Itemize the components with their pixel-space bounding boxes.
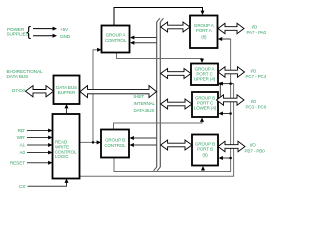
svg-text:+5V: +5V	[60, 27, 69, 32]
svg-text:8-BIT: 8-BIT	[134, 94, 145, 99]
wire bus to port B (hollow arrow)	[161, 140, 192, 150]
group B port C lower U7	[192, 92, 218, 117]
svg-text:RESET: RESET	[10, 161, 25, 166]
svg-text:PC3 - PC0: PC3 - PC0	[246, 104, 267, 109]
wire control logic to data bus buffer	[65, 104, 69, 114]
data bus buffer U1	[54, 76, 80, 105]
arrowhead into port A top	[201, 11, 205, 15]
svg-text:WR': WR'	[17, 135, 26, 140]
wire bus to group B control (lower)	[130, 143, 157, 147]
node A0 input	[19, 150, 25, 155]
junction control branch	[92, 141, 95, 144]
bi-directional data bus label	[7, 69, 44, 79]
svg-text:RD': RD'	[18, 128, 26, 133]
node I/O PA7-PA0	[247, 25, 267, 35]
wire bus to group B control (upper)	[130, 136, 157, 140]
wire control logic bottom rail	[80, 84, 234, 177]
node I/O PC7-PC4	[246, 69, 267, 79]
wire rail arrow into port B bottom	[201, 166, 205, 172]
wire rail arrow into port C upper right	[219, 82, 234, 86]
arrowhead into port C upper top	[200, 59, 204, 63]
arrowhead into group A control left	[97, 48, 101, 52]
wire GND arrow	[33, 34, 57, 38]
node I/O PB7-PB0	[245, 143, 266, 154]
ground GND	[60, 34, 71, 39]
node +5V	[60, 27, 69, 32]
8-bit internal data bus label	[134, 94, 156, 113]
svg-text:{: {	[26, 23, 31, 39]
wire A0 arrow	[27, 151, 53, 155]
wire D7-D0 to buffer (hollow arrow)	[26, 86, 54, 97]
internal data bus (vertical)	[154, 18, 164, 171]
svg-text:CONTROL: CONTROL	[105, 38, 127, 43]
group B control U4	[101, 130, 129, 158]
wire rail arrow into port C lower right	[219, 112, 232, 116]
arrowhead into port C lower bottom	[200, 118, 204, 122]
svg-text:LOGIC: LOGIC	[55, 154, 69, 159]
wire port A to I/O PA (hollow arrow)	[218, 23, 244, 33]
group A port A U5	[190, 16, 218, 49]
node RD' input	[18, 128, 26, 133]
wire CS' to control logic	[28, 179, 69, 187]
svg-text:DATA BUS: DATA BUS	[134, 108, 155, 113]
svg-text:I/O: I/O	[251, 69, 257, 74]
wire bus to port C lower (hollow arrow)	[161, 99, 192, 109]
wire +5V arrow	[33, 27, 57, 31]
svg-text:GND: GND	[60, 34, 71, 39]
wire RD' arrow	[27, 129, 53, 133]
svg-text:GROUP B: GROUP B	[105, 137, 125, 142]
wire control logic to group B control	[80, 141, 98, 143]
svg-text:BI-DIRECTIONAL: BI-DIRECTIONAL	[7, 69, 44, 74]
svg-text:CS': CS'	[19, 184, 26, 189]
svg-text:PB7 - PB0: PB7 - PB0	[245, 148, 266, 153]
svg-text:I/O: I/O	[250, 143, 256, 148]
wire group A control to port A top	[114, 8, 203, 26]
group A control U3	[102, 26, 130, 53]
svg-text:A1: A1	[19, 143, 25, 148]
power brace	[26, 23, 31, 39]
wire group B control to bottom rail	[114, 39, 231, 172]
wire group B control to port C lower bottom	[114, 122, 203, 130]
wire RESET arrow	[27, 161, 53, 165]
wire bus to port A (hollow arrow)	[161, 22, 190, 32]
svg-text:D7-D0: D7-D0	[12, 88, 26, 93]
svg-text:DATA BUS: DATA BUS	[7, 74, 29, 79]
svg-text:I/O: I/O	[251, 99, 257, 104]
wire bus to group A control (upper)	[130, 36, 157, 40]
wire bus to group A control (lower)	[130, 41, 157, 45]
wire rail arrow into port B right	[219, 156, 232, 160]
svg-text:SUPPLIES: SUPPLIES	[7, 32, 29, 37]
wire port B to I/O PB (hollow arrow)	[218, 141, 245, 151]
group A port C upper U6	[191, 64, 218, 86]
node I/O PC3-PC0	[246, 99, 267, 109]
svg-text:PORT B: PORT B	[197, 146, 213, 151]
svg-text:PA7 - PA0: PA7 - PA0	[247, 30, 267, 35]
arrowhead into group B control	[97, 140, 101, 144]
svg-text:UPPER (4): UPPER (4)	[194, 76, 216, 81]
power supplies label	[7, 27, 29, 36]
svg-text:GROUP A: GROUP A	[106, 32, 126, 37]
node RESET input	[10, 161, 25, 166]
wire branch up to group A control	[93, 50, 97, 143]
svg-text:A0: A0	[19, 150, 25, 155]
wire rail arrow into port A right	[218, 37, 231, 41]
svg-text:LOWER (4): LOWER (4)	[194, 106, 217, 111]
wire port C upper to I/O PC upper (hollow arrow)	[218, 67, 245, 77]
wire port C lower to I/O PC lower (hollow arrow)	[217, 95, 245, 105]
wire buffer to internal bus (hollow arrow)	[80, 86, 157, 98]
wire branch down from port C upper junction	[219, 84, 221, 97]
svg-text:(8): (8)	[202, 152, 208, 157]
node CS' input	[19, 184, 26, 189]
wire WR' arrow	[27, 136, 53, 140]
svg-text:CONTROL: CONTROL	[104, 143, 126, 148]
read write control logic U2	[53, 114, 80, 179]
node D7-D0	[12, 88, 26, 93]
svg-text:INTERNAL: INTERNAL	[134, 101, 156, 106]
wire group A control to port C upper top	[117, 53, 203, 60]
node WR' input	[17, 135, 26, 140]
node A1 input	[19, 143, 25, 148]
svg-text:PC7 - PC4: PC7 - PC4	[246, 74, 267, 79]
wire A1 arrow	[27, 143, 53, 147]
wire bus to port C upper (hollow arrow)	[161, 69, 191, 79]
svg-text:PORT A: PORT A	[196, 28, 212, 33]
svg-text:BUFFER: BUFFER	[58, 90, 76, 95]
svg-text:(8): (8)	[201, 35, 207, 40]
group B port B U8	[192, 135, 218, 166]
